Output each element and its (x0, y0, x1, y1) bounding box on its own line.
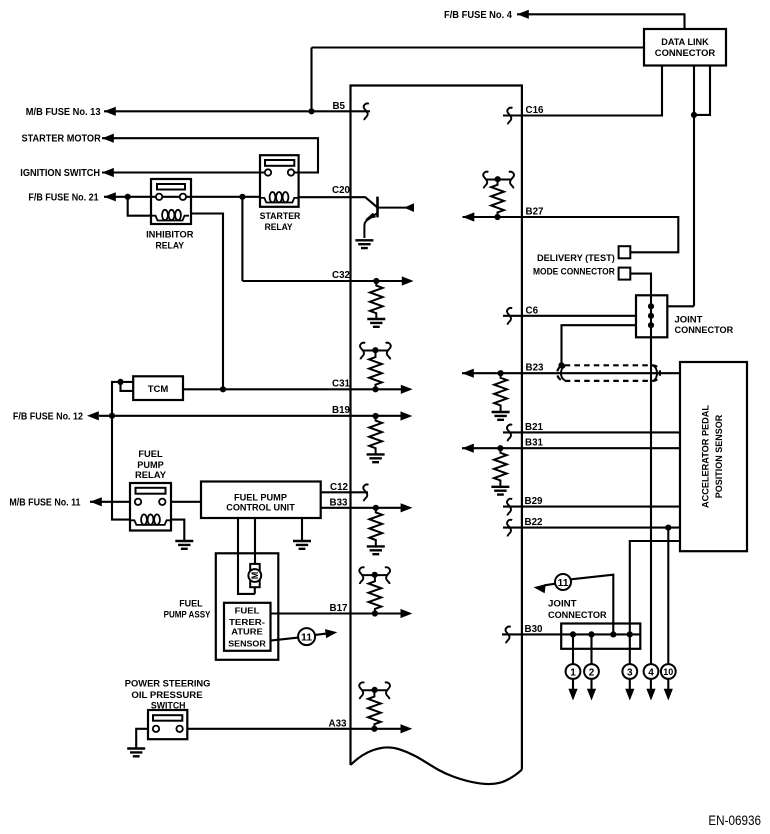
fuel pump motor (248, 564, 261, 587)
fuel pump assy box (216, 553, 278, 660)
resistor above B27 (491, 178, 504, 217)
node: dots inside lower joint connector (570, 631, 576, 637)
resistor at C32 to ground (370, 281, 383, 320)
wire A33 power steering switch (187, 728, 403, 730)
wire fuel pump relay coil to ground (171, 520, 184, 541)
ground below B33 resistor (367, 546, 385, 554)
arrow F/B FUSE No.21 (104, 192, 116, 201)
svg-text:M/B FUSE No. 13: M/B FUSE No. 13 (26, 107, 101, 118)
node: dot at capsule shield tap (558, 362, 564, 368)
svg-text:RELAY: RELAY (156, 239, 185, 250)
wire C16 to DATA LINK CONNECTOR (503, 66, 662, 116)
svg-text:C16: C16 (526, 105, 545, 116)
node: dot on B5 wire at data link branch (308, 108, 314, 114)
svg-text:C20: C20 (332, 185, 351, 196)
svg-text:B17: B17 (330, 603, 349, 614)
resistor above C31 (369, 351, 382, 390)
arrow IGNITION SWITCH (102, 168, 114, 177)
wire DATA LINK CONNECTOR middle pin down to joint connector (693, 66, 695, 307)
shield capsule around B23 wire (dashed) (557, 365, 660, 381)
svg-text:TCM: TCM (148, 384, 169, 395)
starter relay (260, 155, 299, 207)
wire circled 10 drop (667, 679, 669, 690)
arrow F/B FUSE No.4 (517, 10, 529, 19)
svg-text:B30: B30 (525, 624, 544, 635)
arrow STARTER MOTOR (102, 134, 114, 143)
pin break mark B5 (364, 103, 369, 120)
wire fuel pump relay contact to control unit (171, 501, 201, 503)
supply rail bar above C31 (360, 343, 391, 360)
svg-text:INHIBITOR: INHIBITOR (146, 228, 194, 239)
arrow C31 (401, 385, 413, 394)
svg-text:B5: B5 (332, 101, 345, 112)
wire inhibitor relay coil to C31 junction (191, 214, 223, 390)
svg-text:F/B FUSE No. 4: F/B FUSE No. 4 (444, 10, 512, 21)
svg-text:CONNECTOR: CONNECTOR (548, 609, 607, 620)
svg-text:POSITION SENSOR: POSITION SENSOR (713, 414, 724, 498)
node: dot on B22 wire (665, 525, 671, 531)
svg-text:C32: C32 (332, 270, 351, 281)
fuel temperature sensor box (224, 603, 271, 651)
wire M/B FUSE No.11 to fuel pump relay (90, 501, 130, 503)
node: dot starter relay coil feed (239, 194, 245, 200)
svg-text:B29: B29 (525, 496, 544, 507)
pin break mark B29 (507, 499, 512, 516)
starter relay contact terminals (265, 169, 271, 175)
wire TCM to C31 (183, 388, 404, 390)
joint connector box lower (561, 624, 640, 649)
wire F/B FUSE No.12 to B19 (99, 415, 404, 417)
wire DATA LINK CONNECTOR left pin to B5 branch (312, 48, 645, 112)
node: dot B33 (373, 505, 379, 511)
svg-text:ATURE: ATURE (231, 627, 263, 637)
wire joint connector to shield capsule (562, 325, 637, 365)
wire joint connector vertical through to circled 4 (650, 295, 652, 664)
svg-text:B19: B19 (332, 405, 351, 416)
arrow A33 (401, 724, 413, 733)
svg-text:B33: B33 (330, 497, 349, 508)
svg-text:F/B FUSE No. 21: F/B FUSE No. 21 (28, 192, 98, 203)
svg-text:B27: B27 (526, 207, 545, 218)
arrow B33 (401, 503, 413, 512)
svg-text:CONNECTOR: CONNECTOR (655, 47, 716, 58)
resistor below B31 (494, 448, 507, 487)
svg-text:STARTER: STARTER (260, 210, 301, 221)
circled terminal 3 (622, 664, 637, 679)
wire B31 (462, 447, 680, 449)
wire B23 to accelerator pedal position sensor (462, 372, 680, 374)
node: dot on B23 wire (498, 370, 504, 376)
delivery test mode connector square 2 (619, 268, 631, 280)
svg-text:CONTROL UNIT: CONTROL UNIT (226, 503, 295, 514)
svg-text:C31: C31 (332, 378, 351, 389)
delivery test mode connector square 1 (619, 246, 631, 258)
resistor below B23 (494, 373, 507, 412)
power steering oil pressure switch (148, 710, 187, 739)
wire B22 junction down to circled 10 (667, 528, 669, 665)
resistor above B17 (369, 575, 382, 614)
pin break mark C6 (507, 308, 512, 325)
wire C32 (242, 197, 403, 281)
transistor Q1 at C20 (364, 197, 414, 238)
node: dot on F/B FUSE No.12 wire (109, 413, 115, 419)
wire C20 starter relay coil to transistor base (299, 197, 378, 207)
wire circled 3 drop (629, 679, 631, 690)
svg-text:STARTER MOTOR: STARTER MOTOR (22, 134, 102, 145)
node: dot C31 junction (220, 386, 226, 392)
node: dot F/B FUSE No.21 branch (125, 194, 131, 200)
wire circled 11 pointer at fuel temperature sensor (271, 633, 328, 640)
node: dot A33 (371, 726, 377, 732)
circled 11 annotation upper (533, 574, 571, 593)
svg-text:SENSOR: SENSOR (228, 638, 266, 648)
svg-text:11: 11 (301, 631, 312, 643)
wire accelerator pedal sensor pin to circled 3 (630, 541, 680, 664)
node: dot B19 (373, 413, 379, 419)
fuel pump control unit box (201, 482, 321, 519)
wire circled 11 pointer to bottom joint connector (545, 575, 614, 635)
arrow B27 (463, 212, 475, 221)
ground below B19 resistor (367, 454, 385, 462)
wire B21 (503, 431, 680, 433)
fuel pump relay contact terminals (135, 499, 141, 505)
node: dot C31 resistor junction (372, 386, 378, 392)
wire circled 4 drop (650, 679, 652, 690)
svg-text:M/B FUSE No. 11: M/B FUSE No. 11 (9, 497, 80, 508)
svg-text:FUEL: FUEL (138, 448, 163, 459)
ground below C32 resistor (367, 319, 385, 327)
svg-text:1: 1 (570, 667, 576, 678)
node: dot on B27 wire (494, 214, 500, 220)
svg-text:10: 10 (663, 667, 673, 677)
svg-text:JOINT: JOINT (548, 598, 577, 609)
arrow B19 (401, 411, 413, 420)
svg-text:EN-06936: EN-06936 (708, 813, 761, 828)
wire C12 (321, 491, 368, 493)
wire B17 fuel temperature sensor (271, 612, 404, 614)
wire fuel pump control unit ground lead (301, 518, 303, 541)
wire DATA LINK CONNECTOR right pin (694, 66, 710, 115)
svg-text:POWER STEERING: POWER STEERING (125, 677, 211, 688)
resistor below B19 (369, 416, 382, 455)
wire TCM pins (112, 382, 133, 416)
svg-text:FUEL: FUEL (235, 606, 260, 616)
svg-text:3: 3 (627, 667, 633, 678)
svg-text:B31: B31 (525, 438, 544, 449)
circled terminal 2 (584, 664, 599, 679)
wire IGNITION SWITCH to starter relay contact (102, 171, 268, 173)
node: dot at B27 rail (495, 176, 501, 182)
svg-text:TERER-: TERER- (229, 617, 265, 627)
node: dots inside upper joint connector (648, 303, 654, 309)
node: dot C32 (373, 278, 379, 284)
arrow F/B FUSE No.12 (87, 411, 99, 420)
supply rail bar above B17 (359, 567, 390, 584)
svg-text:2: 2 (589, 667, 595, 678)
wire circled 2 drop (590, 634, 592, 690)
arrow C32 (402, 276, 414, 285)
svg-text:C12: C12 (330, 482, 349, 493)
supply rail bar above A33 (359, 682, 390, 699)
svg-text:RELAY: RELAY (135, 469, 167, 480)
node: dot on data link middle pin (691, 112, 697, 118)
svg-text:C6: C6 (526, 305, 539, 316)
circled terminal 4 (644, 664, 659, 679)
svg-text:FUEL: FUEL (179, 598, 203, 609)
pin break mark C12 (363, 484, 368, 501)
svg-text:JOINT: JOINT (675, 313, 703, 324)
arrow B31 (462, 444, 474, 453)
wire delivery mode connector square 2 to joint connector (630, 274, 651, 296)
pin break mark C16 (507, 108, 512, 125)
inhibitor relay (151, 179, 191, 224)
wire B30 to bottom joint connector (502, 633, 640, 635)
svg-text:RELAY: RELAY (265, 221, 294, 232)
supply rail bar above B27 (483, 172, 514, 189)
wire F/B FUSE No.4 to DATA LINK CONNECTOR (517, 14, 685, 29)
wire fuel pump control unit to motor (238, 518, 255, 594)
arrow B23 (462, 369, 474, 378)
svg-text:B23: B23 (526, 363, 545, 374)
wire fuel pump relay coil left supply (112, 416, 130, 520)
svg-text:B22: B22 (525, 517, 544, 528)
inhibitor relay contact terminals (156, 194, 162, 200)
svg-text:DATA LINK: DATA LINK (661, 36, 709, 47)
resistor below B33 (369, 508, 382, 547)
circled terminal 10 (661, 664, 676, 679)
arrow M/B FUSE No.13 (104, 107, 116, 116)
wire STARTER MOTOR to starter relay contact (102, 138, 318, 172)
ground at fuel pump relay coil (175, 541, 193, 549)
ground below B23 resistor (492, 412, 510, 420)
wire F/B FUSE No.21 through inhibitor relay to starter relay coil (104, 196, 260, 198)
TCM box (133, 376, 183, 400)
ground below B31 resistor (491, 487, 509, 495)
svg-text:CONNECTOR: CONNECTOR (675, 324, 734, 335)
pin break mark B22 (507, 520, 512, 537)
node: dot on B31 wire (497, 445, 503, 451)
svg-text:DELIVERY (TEST): DELIVERY (TEST) (537, 252, 615, 263)
svg-text:4: 4 (648, 667, 654, 678)
svg-text:A33: A33 (329, 718, 348, 729)
wire inhibitor relay coil branch (128, 197, 151, 216)
svg-text:B21: B21 (525, 422, 544, 433)
wire C6 to joint connector (503, 315, 636, 317)
svg-text:MODE CONNECTOR: MODE CONNECTOR (533, 265, 615, 276)
svg-text:SWITCH: SWITCH (151, 699, 186, 710)
wire B5 / M/B FUSE No.13 (104, 110, 370, 112)
ECM main box outline with torn bottom edge (351, 86, 522, 785)
svg-text:M: M (250, 572, 260, 580)
node: dot B17 (372, 610, 378, 616)
pin break mark B21 (507, 425, 512, 442)
resistor above A33 (368, 690, 381, 729)
wire circled 1 drop (572, 634, 574, 690)
wire B29 (503, 506, 680, 508)
wire B22 (503, 527, 680, 529)
arrow M/B FUSE No.11 (90, 497, 102, 506)
wire power steering switch to ground (136, 729, 148, 748)
ground at power steering switch (127, 749, 145, 757)
svg-text:F/B FUSE No. 12: F/B FUSE No. 12 (13, 411, 83, 422)
arrow B17 (401, 609, 413, 618)
pin break mark B30 (506, 627, 511, 644)
joint connector box upper (636, 295, 667, 337)
wire B33 (321, 507, 404, 509)
circled 11 annotation at fuel temperature sensor (298, 628, 338, 645)
node: dot TCM upper pin junction (117, 379, 123, 385)
svg-text:IGNITION SWITCH: IGNITION SWITCH (20, 168, 100, 179)
svg-text:11: 11 (557, 577, 568, 589)
accelerator pedal position sensor box (680, 362, 747, 551)
wire B27 to delivery test mode connector (463, 217, 679, 252)
data link connector box (644, 29, 726, 66)
ground at transistor emitter (355, 240, 373, 248)
svg-text:PUMP ASSY: PUMP ASSY (164, 609, 211, 620)
wire joint connector pin to data link vertical (667, 305, 694, 307)
svg-text:OIL PRESSURE: OIL PRESSURE (131, 689, 202, 700)
ground at fuel pump control unit (293, 541, 311, 549)
circled terminal 1 (566, 664, 581, 679)
svg-text:ACCELERATOR PEDAL: ACCELERATOR PEDAL (700, 405, 711, 508)
fuel pump relay (130, 483, 171, 531)
